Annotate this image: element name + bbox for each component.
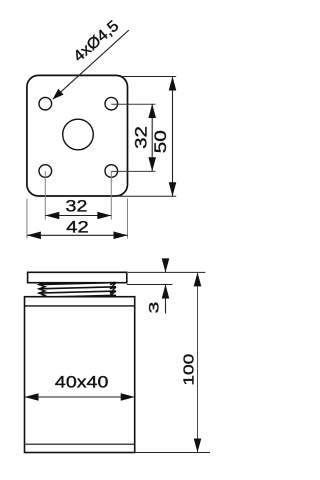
svg-text:100: 100: [179, 354, 197, 386]
svg-text:42: 42: [66, 217, 89, 236]
svg-text:3: 3: [146, 302, 162, 314]
svg-text:50: 50: [151, 130, 169, 153]
svg-text:40x40: 40x40: [55, 373, 108, 391]
svg-text:32: 32: [66, 197, 88, 215]
svg-text:32: 32: [131, 126, 150, 149]
